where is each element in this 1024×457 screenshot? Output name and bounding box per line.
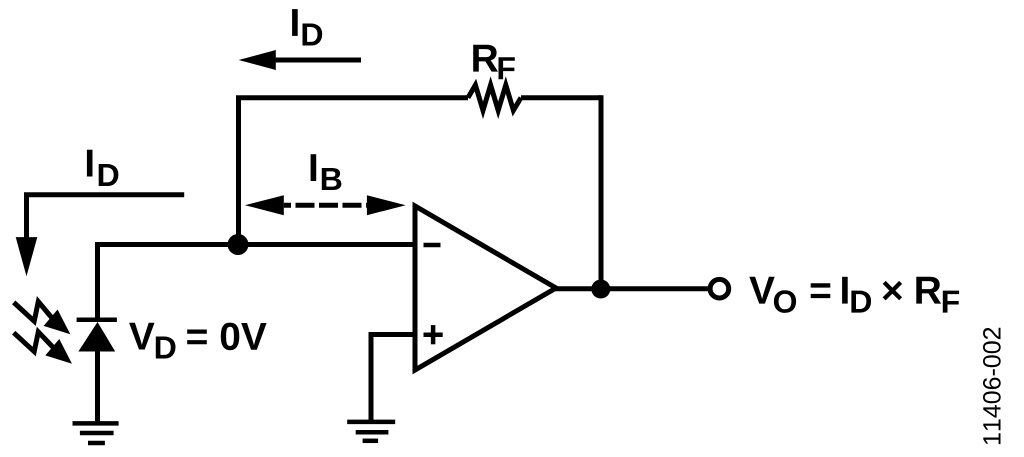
wire feedback right vertical (to output node) (599, 95, 604, 289)
node output junction dot (591, 280, 610, 299)
wire op-amp output to terminal (555, 286, 708, 291)
resistor RF (zigzag) (468, 85, 521, 110)
photodiode D1 cathode bar (77, 317, 117, 322)
label VO = ID x RF (749, 277, 959, 313)
terminal VO (open circle) (710, 279, 729, 298)
op-amp inverting input symbol (minus) (424, 243, 441, 247)
light arrows (photodiode illumination) (14, 302, 71, 335)
photodiode D1 triangle (78, 322, 115, 352)
ground (photodiode) (73, 423, 119, 443)
arrow ID top (pointing left) (239, 50, 361, 70)
label ID (photodiode current, left) (87, 150, 119, 186)
ground (op-amp non-inverting input) (347, 422, 395, 441)
wire photodiode to op-amp inverting input (98, 245, 416, 322)
label IB (311, 154, 342, 190)
op-amp non-inverting input symbol (plus) (424, 325, 443, 344)
wire photodiode to ground (95, 351, 100, 421)
label ID (top feedback current) (292, 9, 322, 45)
wire feedback top right segment (521, 95, 601, 100)
node A junction dot (inverting input node) (228, 234, 249, 255)
op-amp U1 (415, 206, 556, 370)
wire non-inverting input to ground (371, 335, 415, 422)
label figure number 11406-002 (vertical) (983, 328, 1001, 444)
arrow ID left (down into photodiode) (16, 195, 185, 277)
label RF (473, 45, 515, 79)
arrow IB (dashed double-headed) (245, 195, 406, 215)
label VD = 0V (129, 323, 267, 359)
wire feedback left vertical and top horizontal (239, 98, 469, 245)
